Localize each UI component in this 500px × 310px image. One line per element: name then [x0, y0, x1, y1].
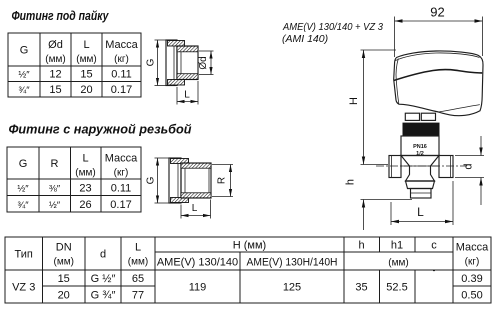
- fitting F1: L dimension: [177, 81, 198, 105]
- svg-text:Масса: Масса: [456, 242, 489, 254]
- svg-text:-: -: [433, 266, 436, 275]
- valve left port: [389, 156, 401, 178]
- svg-text:(кг): (кг): [465, 257, 480, 268]
- svg-text:20: 20: [58, 290, 70, 302]
- svg-text:L: L: [83, 39, 89, 51]
- svg-text:G: G: [20, 45, 29, 57]
- actuator AME body: [394, 51, 483, 116]
- fitting F1: Ød dimension: [198, 51, 214, 75]
- svg-text:23: 23: [79, 183, 91, 195]
- fitting F2: L dimension: [181, 200, 211, 219]
- svg-text:(кг): (кг): [114, 168, 129, 179]
- table T1 data rows: [18, 69, 132, 97]
- svg-text:½″: ½″: [17, 184, 29, 195]
- svg-text:0.11: 0.11: [111, 69, 132, 81]
- svg-text:0.11: 0.11: [111, 183, 132, 195]
- fitting F1: hatched flange caps: [168, 41, 185, 86]
- svg-text:L: L: [417, 205, 424, 219]
- svg-text:20: 20: [80, 84, 92, 96]
- bottom table grid: [5, 236, 491, 303]
- svg-text:0.17: 0.17: [111, 84, 132, 96]
- svg-text:Фитинг с наружной резьбой: Фитинг с наружной резьбой: [9, 123, 192, 137]
- fitting F2: R dimension: [212, 165, 233, 197]
- svg-text:35: 35: [355, 282, 367, 294]
- svg-text:0.39: 0.39: [461, 273, 482, 285]
- svg-text:Фитинг под пайку: Фитинг под пайку: [12, 9, 110, 23]
- svg-text:65: 65: [132, 273, 144, 285]
- svg-text:c: c: [431, 240, 437, 252]
- svg-text:1/2: 1/2: [416, 151, 424, 157]
- dimension d (port diameter): [455, 136, 484, 205]
- dimension 92 (actuator width): [395, 5, 483, 58]
- table T1 grid (solder fitting): [8, 32, 141, 97]
- svg-text:H: H: [348, 97, 360, 105]
- dimension L (valve length): [391, 181, 453, 225]
- valve caption: AME(V) 130/140 + VZ 3 / (AMI 140): [282, 21, 383, 45]
- fitting F2: threaded body: [181, 163, 211, 198]
- svg-text:¾″: ¾″: [18, 85, 30, 96]
- svg-text:0.17: 0.17: [110, 199, 131, 211]
- svg-text:L: L: [135, 242, 141, 254]
- actuator stem couplers: [405, 113, 435, 120]
- pipe centerline (dash-dot): [376, 165, 467, 167]
- svg-text:Масса: Масса: [105, 39, 138, 51]
- fitting F2: flange nut: [169, 158, 181, 203]
- svg-text:52.5: 52.5: [386, 282, 407, 294]
- svg-text:½″: ½″: [18, 70, 30, 81]
- svg-text:26: 26: [79, 199, 91, 211]
- svg-text:(мм): (мм): [388, 258, 408, 269]
- table T2 grid (external thread fitting): [7, 146, 141, 212]
- svg-text:¾″: ¾″: [17, 200, 29, 211]
- svg-text:R: R: [51, 158, 59, 170]
- valve bonnet with PN16 marking: [401, 136, 439, 157]
- fitting F2: G dimension: [146, 158, 171, 203]
- svg-text:Масса: Масса: [105, 153, 138, 165]
- svg-text:h1: h1: [391, 240, 403, 252]
- valve center body: [401, 156, 439, 199]
- title: Фитинг с наружной резьбой: [9, 123, 192, 137]
- svg-text:G ¾″: G ¾″: [91, 290, 116, 302]
- svg-text:Ød: Ød: [198, 56, 209, 69]
- fitting F1: body with solder socket: [177, 46, 198, 80]
- svg-text:AME(V) 130H/140H: AME(V) 130H/140H: [247, 257, 338, 269]
- svg-text:G ½″: G ½″: [91, 273, 116, 285]
- svg-text:0.50: 0.50: [461, 290, 482, 302]
- svg-text:15: 15: [58, 273, 70, 285]
- svg-text:(мм): (мм): [128, 257, 148, 268]
- svg-text:h: h: [345, 179, 357, 185]
- dimension h (centerline to valve bottom): [345, 165, 413, 231]
- table T2 data rows: [17, 183, 131, 212]
- svg-text:R: R: [217, 177, 228, 184]
- svg-text:(AMI 140): (AMI 140): [282, 33, 328, 45]
- svg-text:⅜″: ⅜″: [49, 184, 61, 195]
- fitting F2: hatched flange caps: [171, 159, 189, 203]
- svg-text:d: d: [100, 249, 106, 261]
- table T1 header text: [20, 39, 139, 65]
- union nut (black): [403, 123, 440, 136]
- svg-text:15: 15: [80, 69, 92, 81]
- svg-text:(кг): (кг): [114, 54, 129, 65]
- valve right port: [439, 156, 453, 178]
- svg-text:Тип: Тип: [15, 249, 33, 261]
- table T2 header text: [19, 153, 138, 179]
- bottom table data rows: [12, 266, 483, 302]
- svg-text:AME(V) 130/140: AME(V) 130/140: [157, 257, 238, 269]
- svg-text:L: L: [82, 153, 88, 165]
- svg-text:119: 119: [189, 282, 207, 294]
- title: Фитинг под пайку: [12, 9, 110, 23]
- svg-text:G: G: [146, 176, 157, 184]
- svg-text:h: h: [358, 240, 364, 252]
- svg-text:125: 125: [283, 282, 301, 294]
- svg-text:d: d: [463, 163, 475, 169]
- svg-text:92: 92: [430, 5, 444, 20]
- svg-text:½″: ½″: [49, 200, 61, 211]
- svg-text:L: L: [184, 90, 190, 101]
- svg-text:12: 12: [49, 69, 61, 81]
- svg-text:AME(V) 130/140 + VZ 3: AME(V) 130/140 + VZ 3: [282, 21, 383, 33]
- svg-text:VZ 3: VZ 3: [12, 282, 35, 294]
- svg-text:Ød: Ød: [48, 39, 63, 51]
- svg-text:L: L: [192, 203, 198, 214]
- svg-text:(мм): (мм): [75, 168, 95, 179]
- svg-text:G: G: [19, 158, 28, 170]
- svg-text:PN16: PN16: [413, 144, 427, 150]
- svg-text:H (мм): H (мм): [233, 240, 266, 252]
- svg-text:G: G: [146, 58, 157, 66]
- fitting F1: G dimension: [146, 40, 168, 86]
- svg-text:DN: DN: [56, 242, 72, 254]
- svg-text:(мм): (мм): [53, 257, 73, 268]
- svg-text:(мм): (мм): [76, 54, 96, 65]
- svg-text:15: 15: [49, 84, 61, 96]
- svg-text:77: 77: [132, 290, 144, 302]
- svg-text:(мм): (мм): [45, 54, 65, 65]
- fitting F1: flange nut: [166, 40, 177, 86]
- dimension H (centerline to actuator top): [348, 50, 396, 165]
- bottom table header text: [15, 240, 490, 269]
